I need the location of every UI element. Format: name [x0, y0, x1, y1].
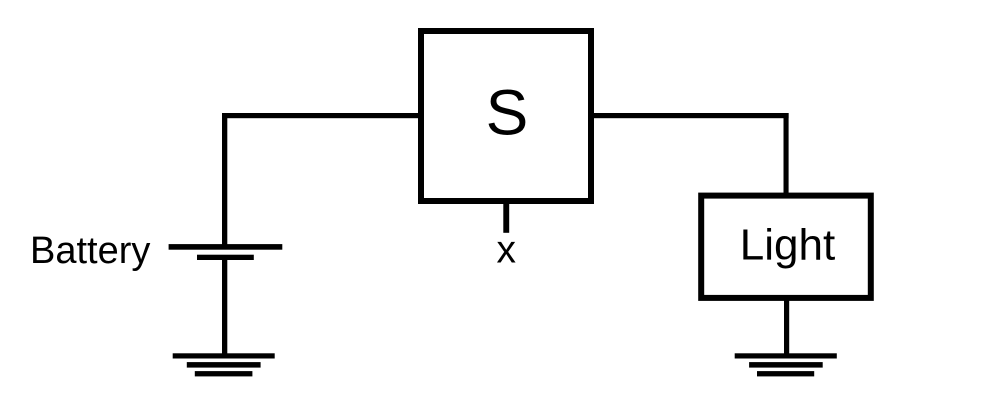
wire from battery top to S left [222, 113, 421, 118]
svg-text:x: x [496, 228, 516, 271]
wire from S right to light top [591, 113, 789, 118]
svg-text:S: S [486, 76, 529, 148]
svg-text:Light: Light [740, 220, 835, 269]
wire light vertical upper [784, 113, 789, 197]
ground left [173, 353, 275, 376]
switch box S [421, 31, 591, 201]
light box L1 [701, 196, 871, 298]
wire battery to ground [222, 258, 227, 356]
wire light to ground [784, 298, 789, 355]
label Battery [30, 230, 150, 272]
label x [496, 228, 516, 271]
ground right [735, 353, 837, 376]
battery B1 [169, 244, 283, 260]
svg-text:Battery: Battery [30, 230, 150, 272]
wire battery vertical upper [222, 113, 227, 246]
node x stub under S [503, 201, 509, 233]
